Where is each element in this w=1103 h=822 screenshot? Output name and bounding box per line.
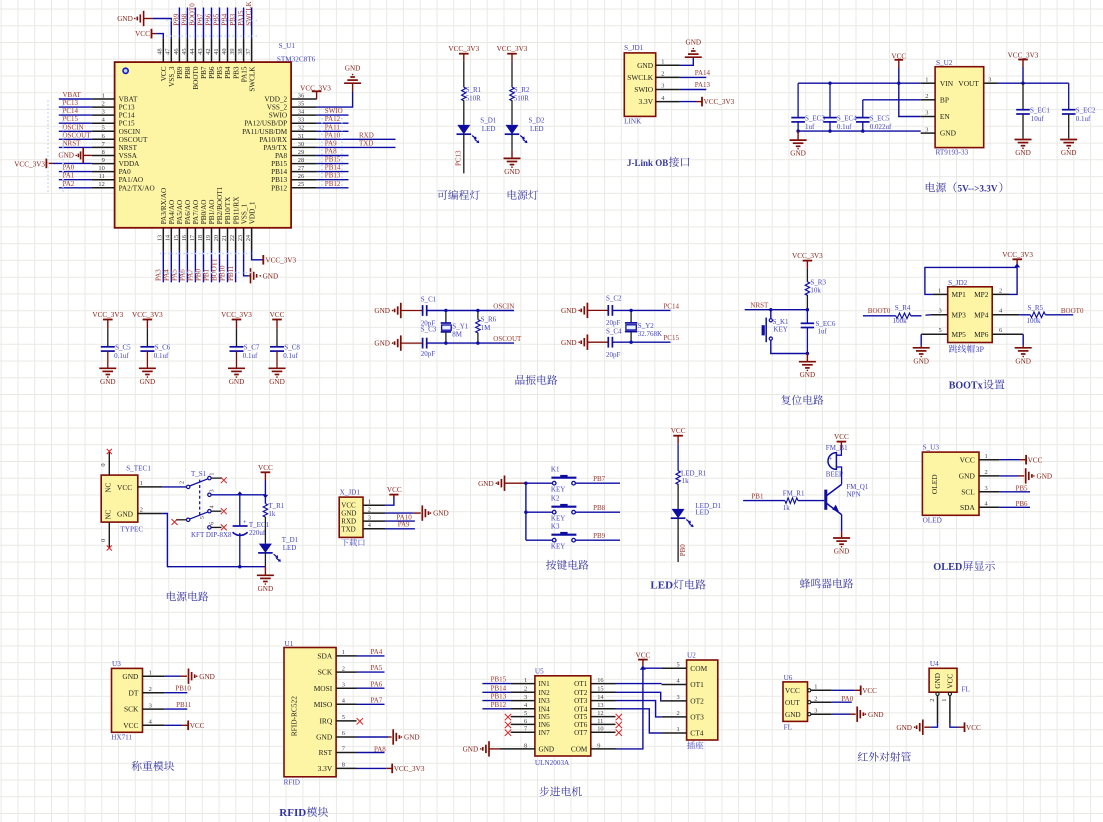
U1 pin 11 (PA1/AO) left xyxy=(92,173,143,184)
svg-text:PA5: PA5 xyxy=(171,269,179,281)
wire trunk to K1 xyxy=(526,482,553,484)
svg-text:PC14: PC14 xyxy=(663,302,679,310)
svg-text:IN1: IN1 xyxy=(539,680,551,688)
svg-text:S_U3: S_U3 xyxy=(923,444,940,452)
svg-text:0.1uf: 0.1uf xyxy=(243,352,258,360)
socket U2 pin 1 (CT4) xyxy=(662,726,704,737)
svg-text:1k: 1k xyxy=(268,510,276,518)
power GND symbol below S_EC3 xyxy=(790,131,807,158)
svg-text:GND: GND xyxy=(561,307,577,315)
RFID label xyxy=(284,778,300,786)
wire net PA11 (U1 right) xyxy=(317,130,349,132)
svg-text:VSS_1: VSS_1 xyxy=(240,204,248,225)
junction S_Y1 top xyxy=(444,309,447,312)
wire K1 to PB7 xyxy=(575,482,620,484)
node label PC14 xyxy=(63,107,79,115)
svg-text:1k: 1k xyxy=(783,504,791,512)
svg-text:2: 2 xyxy=(929,699,936,702)
svg-text:13: 13 xyxy=(157,235,164,241)
junction VCC_3V3 tap xyxy=(1014,263,1020,267)
svg-text:SCL: SCL xyxy=(961,487,975,496)
svg-text:27: 27 xyxy=(298,165,305,172)
power GND symbol below pin6 xyxy=(1015,346,1032,366)
U5 pin 10 (OT7) xyxy=(574,726,615,737)
svg-text:1: 1 xyxy=(938,287,941,294)
socket U2 pin 3 (OT2) xyxy=(662,694,705,705)
svg-text:GND: GND xyxy=(896,724,912,732)
svg-text:3: 3 xyxy=(368,515,371,522)
capacitor S_C8 0.1uf xyxy=(270,328,300,368)
svg-text:1: 1 xyxy=(524,677,527,684)
svg-text:GND: GND xyxy=(959,472,976,481)
U5 pin 14 (OT3) xyxy=(574,694,615,705)
S_U3 label OLED xyxy=(923,516,942,524)
junction S_EC4 top xyxy=(828,82,831,85)
U1 pin 17 (PA7/AO) bottom xyxy=(189,200,200,251)
wire S_R3 to NRST node xyxy=(806,295,808,310)
wire net PB0 below LED_D1 xyxy=(677,518,679,562)
svg-text:39: 39 xyxy=(229,48,236,54)
svg-text:S_R4: S_R4 xyxy=(895,304,911,312)
T_S1 value KFT DIP-8X8 xyxy=(191,531,232,539)
svg-text:VCC_3V3: VCC_3V3 xyxy=(92,311,123,319)
node label VBAT xyxy=(63,91,82,99)
svg-text:PB8: PB8 xyxy=(181,13,189,26)
wire net PA10_RXD (U1 right) xyxy=(317,138,396,140)
svg-text:GND: GND xyxy=(229,378,245,386)
S_JD1 pin 2 (SWCLK) xyxy=(627,71,680,82)
node label SWCLK xyxy=(245,1,253,26)
S_JD2 pins MP3/MP4 xyxy=(952,310,989,319)
svg-text:GND: GND xyxy=(1061,149,1077,157)
U1 pin 43 (PB7) top xyxy=(197,39,208,79)
svg-text:S_R6: S_R6 xyxy=(481,316,497,324)
S_JD2 pin 6 xyxy=(992,327,1023,334)
wire net PA0 (U1 left) xyxy=(59,171,92,173)
node label SWIO xyxy=(325,107,343,115)
wire net PB12 (U5) xyxy=(482,708,510,710)
node label PA9 xyxy=(398,521,410,529)
node label BOOT1 xyxy=(211,258,219,281)
wire net PA15 (U1 top) xyxy=(243,8,245,39)
U5 pin 1 (IN1) xyxy=(511,677,550,688)
S_JD2 label 跳线帽3P xyxy=(949,345,985,354)
svg-text:OLED: OLED xyxy=(923,516,942,524)
svg-text:PB6: PB6 xyxy=(208,66,216,79)
svg-text:19: 19 xyxy=(205,235,212,241)
svg-text:NRST: NRST xyxy=(750,301,769,309)
S_U2 value RT9193-33 xyxy=(936,149,969,157)
U1 pin 19 (PB1/AO) bottom xyxy=(205,200,216,251)
svg-text:MISO: MISO xyxy=(314,700,333,709)
svg-text:37: 37 xyxy=(245,48,252,55)
no-ERC cross T_S1 pin6 xyxy=(221,524,227,530)
svg-text:S_C8: S_C8 xyxy=(284,344,300,352)
svg-text:IN5: IN5 xyxy=(539,713,551,721)
wire emitter to GND xyxy=(841,515,843,532)
capacitor S_C5 0.1uf xyxy=(101,328,131,368)
svg-text:13: 13 xyxy=(597,702,603,709)
svg-text:3: 3 xyxy=(524,694,527,701)
S_JD2 pins MP5/MP6 xyxy=(952,330,989,339)
svg-text:PC15: PC15 xyxy=(63,115,79,123)
U1 pin 6 (OSCOUT) left xyxy=(92,133,148,144)
wire key trunk xyxy=(525,483,527,540)
svg-text:OSCIN: OSCIN xyxy=(493,302,514,310)
svg-text:PA15: PA15 xyxy=(237,10,245,26)
S_JD2 designator xyxy=(948,279,968,287)
power VCC symbol at U1 pin 48 xyxy=(135,29,156,39)
svg-text:COM: COM xyxy=(690,664,707,673)
svg-text:PA2/TX/AO: PA2/TX/AO xyxy=(119,184,155,192)
svg-text:OUT: OUT xyxy=(785,699,800,707)
svg-text:9: 9 xyxy=(597,742,600,749)
wire net PB15 (U1 right) xyxy=(317,163,349,165)
U3 value HX711 xyxy=(111,734,132,742)
S_JD1 label LINK xyxy=(624,118,642,126)
S_JD2 pin 4 xyxy=(992,308,1019,315)
wire VDD_1 to VCC_3V3 (pin 24) xyxy=(252,251,264,260)
wire net PC13 (U1 left) xyxy=(59,106,92,108)
wire net SWCLK (U1 top) xyxy=(251,8,253,39)
svg-text:510R: 510R xyxy=(466,95,482,103)
svg-text:VCC: VCC xyxy=(862,687,877,695)
power GND symbol below S_C5 xyxy=(99,368,116,386)
power GND symbol at S_C1 xyxy=(374,303,400,318)
U4 pin 2 (GND) xyxy=(929,692,939,723)
svg-text:SDA: SDA xyxy=(960,503,975,512)
wire GND to S_C4 xyxy=(587,341,608,343)
RFID U1 pin 3 (MOSI) xyxy=(314,681,357,692)
svg-text:PA3: PA3 xyxy=(155,269,163,281)
svg-text:0: 0 xyxy=(100,539,107,542)
wire OT1 to socket xyxy=(616,683,662,685)
svg-text:PA5: PA5 xyxy=(371,664,383,672)
module U6 body (FL receiver) xyxy=(783,682,808,722)
svg-text:PA15: PA15 xyxy=(240,66,248,82)
wire net BOOT0 (U1 top) xyxy=(194,8,196,39)
power GND symbol right of RFID xyxy=(393,729,419,744)
junction NRST / S_R3 xyxy=(806,308,809,311)
U1 pin 42 (PB6) top xyxy=(205,39,216,79)
wire net PB12 (U1 right) xyxy=(317,187,349,189)
svg-text:6: 6 xyxy=(999,327,1002,334)
X_JD1 designator xyxy=(340,489,361,497)
svg-text:S_D2: S_D2 xyxy=(529,117,545,125)
svg-text:GND: GND xyxy=(100,378,116,386)
power GND symbol left of U5 xyxy=(463,741,489,756)
svg-text:3.3V: 3.3V xyxy=(639,97,654,106)
wire RFID 3.3V to VCC_3V3 xyxy=(357,767,387,769)
svg-text:17: 17 xyxy=(189,234,196,241)
U1 pin 5 (OSCIN) left xyxy=(92,125,141,136)
node label PA5 xyxy=(171,269,179,281)
switch T_S1 contact 5 xyxy=(176,516,206,521)
junction S_R6 top xyxy=(476,309,479,312)
section title 电源灯 xyxy=(508,190,539,200)
junction trunk row2 xyxy=(524,511,527,514)
wire net PA8 (U1 right) xyxy=(317,155,349,157)
U1 value STM32C8T6 xyxy=(277,56,316,64)
node label PA15 xyxy=(237,10,245,26)
wire net PA7 (RFID) xyxy=(357,703,385,705)
crystal S_Y2 32.768K xyxy=(625,310,662,342)
svg-text:PA0: PA0 xyxy=(119,168,132,176)
svg-text:BOOT0: BOOT0 xyxy=(192,66,200,90)
wire net PB11 xyxy=(164,708,187,710)
svg-text:BOOT0: BOOT0 xyxy=(1061,307,1084,315)
svg-text:BOOTx: BOOTx xyxy=(949,381,983,392)
svg-text:OLED: OLED xyxy=(930,474,939,494)
transistor FM_Q1 NPN xyxy=(824,483,869,515)
U1 pin 26 (PB13) right xyxy=(271,173,317,184)
svg-text:PA7: PA7 xyxy=(187,269,195,281)
U5 pin 4 (IN4) xyxy=(511,702,550,713)
node label NRST xyxy=(750,301,769,309)
section title LED灯电路 xyxy=(650,579,705,591)
no-ERC cross OT6 xyxy=(616,722,622,728)
wire net PC15 (U1 left) xyxy=(59,122,92,124)
socket U2 pin 5 (COM) xyxy=(662,661,708,672)
svg-text:GND: GND xyxy=(834,548,850,556)
svg-text:48: 48 xyxy=(157,48,164,54)
S_JD2 pin 2 xyxy=(992,287,1009,294)
node label PB7 xyxy=(197,13,205,26)
svg-text:PB3: PB3 xyxy=(232,66,240,79)
node label PC14 xyxy=(663,302,679,310)
U5 designator xyxy=(535,668,544,676)
svg-text:PB5: PB5 xyxy=(213,13,221,26)
U6 pin 3 (GND) xyxy=(785,707,832,718)
U4 label FL xyxy=(962,685,970,693)
svg-text:GND: GND xyxy=(345,65,361,73)
X_JD1 pin 2 (GND) xyxy=(341,507,385,518)
wire net PB6 (U1 top) xyxy=(211,8,213,39)
power VCC symbol above S_C8 xyxy=(270,311,285,328)
resistor S_R3 10k xyxy=(805,279,826,296)
svg-text:PA7: PA7 xyxy=(371,696,383,704)
power VCC symbol above X_JD1 xyxy=(387,486,402,498)
svg-text:VCC: VCC xyxy=(966,724,981,732)
S_JD2 pin 1 xyxy=(933,287,948,294)
power VCC symbol right of U3 xyxy=(182,721,204,731)
wire 3.3V to VCC_3V3 xyxy=(680,101,696,103)
junction S_EC4 bottom xyxy=(828,129,831,132)
svg-text:PB3: PB3 xyxy=(229,13,237,26)
power GND symbol right of OLED xyxy=(1026,468,1052,483)
svg-text:15: 15 xyxy=(173,235,180,241)
U1 designator S_U1 xyxy=(279,42,296,50)
svg-text:VCC_3V3: VCC_3V3 xyxy=(1008,52,1039,60)
crystal S_Y1 8M xyxy=(441,311,469,344)
wire S_D2 to GND xyxy=(511,134,513,150)
svg-text:36: 36 xyxy=(298,92,304,99)
svg-text:OT2: OT2 xyxy=(574,689,588,697)
RFID name RFID-RC522 rotated xyxy=(289,696,298,737)
svg-text:PB6: PB6 xyxy=(1016,500,1029,508)
U1 pin 48 (VCC) top xyxy=(157,39,168,82)
power GND symbol right of X_JD1 xyxy=(422,505,448,520)
node label PB12 xyxy=(491,701,507,709)
wire U4 VCC pin xyxy=(950,723,959,727)
node label PA4 xyxy=(163,269,171,281)
svg-text:RFID: RFID xyxy=(279,807,306,819)
svg-text:PA4: PA4 xyxy=(163,269,171,281)
svg-text:GND: GND xyxy=(940,129,957,138)
wire net VBAT (U1 left) xyxy=(59,98,92,100)
svg-text:PA1: PA1 xyxy=(63,172,75,180)
svg-text:1: 1 xyxy=(985,453,988,460)
node label PB10 xyxy=(175,685,191,693)
svg-text:K2: K2 xyxy=(551,495,560,503)
svg-text:S_C5: S_C5 xyxy=(115,344,131,352)
wire PC15 xyxy=(612,341,670,343)
svg-text:23: 23 xyxy=(237,235,244,241)
node label PC15 xyxy=(63,115,79,123)
svg-text:3: 3 xyxy=(985,485,988,492)
wire net PA2 (U1 left) xyxy=(59,187,92,189)
svg-text:3: 3 xyxy=(814,707,817,714)
junction VCC / contact3 node xyxy=(263,495,269,499)
U1 pin 3 (PC14) left xyxy=(92,109,135,120)
node label PB1 xyxy=(751,492,764,500)
svg-text:29: 29 xyxy=(298,149,304,156)
U6 label FL xyxy=(784,723,792,731)
svg-text:PB14: PB14 xyxy=(325,164,341,172)
U1 pin 20 (PB2/BOOT1) bottom xyxy=(213,186,224,251)
capacitor S_C4 20pF xyxy=(606,327,622,359)
node label PB10 xyxy=(219,265,227,281)
wire net PB5 (U1 top) xyxy=(219,8,221,39)
power VCC_3V3 symbol at pin 24 xyxy=(263,255,296,265)
svg-text:PA9: PA9 xyxy=(325,139,337,147)
wire S_JD1 pin1 to GND xyxy=(680,57,693,65)
svg-text:PC13: PC13 xyxy=(119,104,135,112)
selection dash marks right xyxy=(322,118,342,192)
svg-text:2: 2 xyxy=(925,93,928,100)
wire net BOOT1 (U1 bottom) xyxy=(219,251,221,282)
svg-text:GND: GND xyxy=(478,480,494,488)
U1 pin 33 (PA12/USB/DP) right xyxy=(244,117,317,128)
svg-text:VCC: VCC xyxy=(117,483,132,492)
section title 可编程灯 xyxy=(437,190,479,200)
svg-text:PC14: PC14 xyxy=(119,112,135,120)
S_TEC1 top stub pin xyxy=(100,450,109,475)
svg-text:PB4: PB4 xyxy=(224,66,232,79)
wire NRST to S_K1 xyxy=(770,310,772,319)
wire net PA0 xyxy=(832,701,852,703)
svg-text:PC13: PC13 xyxy=(63,99,79,107)
svg-text:IN3: IN3 xyxy=(539,697,551,705)
wire net PA5 (U1 bottom) xyxy=(178,251,180,282)
capacitor T_EC1 220uf polarized xyxy=(233,495,270,567)
node label PA4 xyxy=(371,648,383,656)
wire COM up to VCC xyxy=(616,668,661,749)
U1 pin 47 (VSS_3) top xyxy=(165,39,176,87)
power VCC symbol right of U6 xyxy=(855,686,877,696)
svg-text:VSS_3: VSS_3 xyxy=(168,66,176,87)
svg-text:LED: LED xyxy=(283,544,297,552)
U5 value ULN2003A xyxy=(535,759,570,767)
svg-text:PA9/TX: PA9/TX xyxy=(263,144,288,152)
wire EN to VCC rail xyxy=(899,83,921,116)
junction VOUT rail / S_EC1 xyxy=(1021,82,1024,85)
wire net SWIO (U1 right) xyxy=(317,114,349,116)
svg-text:VCC: VCC xyxy=(834,433,849,441)
svg-text:BOOT0: BOOT0 xyxy=(868,307,891,315)
wire net PB5 xyxy=(1000,491,1030,493)
svg-text:GND: GND xyxy=(122,672,139,681)
svg-text:BP: BP xyxy=(940,95,949,104)
connector S_TEC1 body xyxy=(101,475,138,522)
node label PB5 xyxy=(213,13,221,26)
wire OSCIN xyxy=(427,310,514,312)
U5 pin 9 (COM) xyxy=(571,742,616,753)
U1 pin 36 (VDD_2) right xyxy=(264,92,316,103)
svg-text:PA4/AO: PA4/AO xyxy=(168,200,176,225)
power GND symbol at U1 pin 8 (VSSA) xyxy=(58,148,91,163)
svg-text:+: + xyxy=(243,519,247,526)
svg-text:3: 3 xyxy=(925,110,928,117)
svg-text:RST: RST xyxy=(319,748,333,757)
node label OSCIN xyxy=(63,123,84,131)
wire K3 to PB9 xyxy=(575,539,620,541)
wire U3 pin4 to VCC xyxy=(164,724,182,726)
svg-text:VCC: VCC xyxy=(123,721,138,730)
S_U3 pin 3 (SCL) xyxy=(961,485,999,496)
wire net PB4 (U1 top) xyxy=(227,8,229,39)
svg-text:GND: GND xyxy=(258,585,274,593)
junction trunk row1 xyxy=(524,482,527,485)
svg-text:PC14: PC14 xyxy=(63,107,79,115)
wire OT3 to socket xyxy=(616,701,662,717)
svg-text:GND: GND xyxy=(790,150,806,158)
U4 designator xyxy=(930,660,939,668)
svg-text:45: 45 xyxy=(181,48,188,54)
svg-text:NRST: NRST xyxy=(119,144,138,152)
junction S_EC3 bottom xyxy=(796,129,799,132)
svg-text:S_EC1: S_EC1 xyxy=(1030,107,1050,115)
RFID U1 pin 7 (RST) xyxy=(319,746,357,757)
U3 designator xyxy=(112,660,121,668)
svg-text:22: 22 xyxy=(229,235,236,241)
svg-text:44: 44 xyxy=(189,48,196,55)
svg-text:2: 2 xyxy=(524,686,527,693)
svg-text:VCC_3V3: VCC_3V3 xyxy=(14,160,45,168)
node label PB5 xyxy=(1016,485,1029,493)
U1 pin 14 (PA4/AO) bottom xyxy=(165,200,176,251)
svg-text:1: 1 xyxy=(140,480,143,487)
svg-text:PB12: PB12 xyxy=(325,180,341,188)
power VCC_3V3 symbol at VOUT xyxy=(1008,52,1039,84)
capacitor S_C2 20pF xyxy=(606,294,622,327)
power GND symbol at S_C4 xyxy=(561,335,587,350)
resistor T_R1 1k xyxy=(263,502,285,518)
svg-text:VCC_3V3: VCC_3V3 xyxy=(394,765,425,773)
section title BOOTx设置 xyxy=(949,379,1005,391)
svg-text:PA1/AO: PA1/AO xyxy=(119,176,144,184)
wire LED_R1 to LED_D1 xyxy=(677,484,679,509)
svg-text:VCC_3V3: VCC_3V3 xyxy=(265,256,296,264)
svg-text:PA10: PA10 xyxy=(325,131,341,139)
wire net PA13 xyxy=(680,89,706,91)
node label BOOT0 left xyxy=(868,307,891,315)
wire S_R1 top lead xyxy=(463,61,465,87)
svg-text:S_Y1: S_Y1 xyxy=(452,323,468,331)
T_S1 dashed link xyxy=(199,480,201,516)
U1 pin 46 (PB9) top xyxy=(173,39,184,79)
svg-text:LED: LED xyxy=(482,125,496,133)
